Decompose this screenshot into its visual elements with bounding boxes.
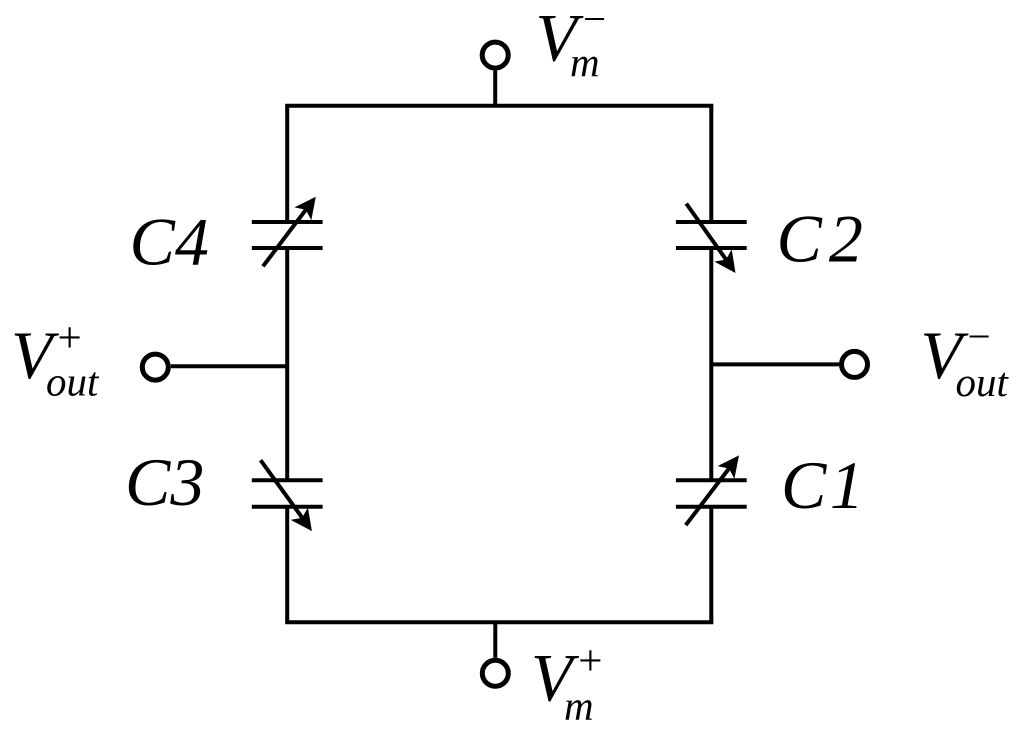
svg-text:+: + [576, 638, 605, 685]
capacitor C4 (variable, top left) [252, 197, 323, 267]
svg-text:+: + [55, 315, 84, 362]
svg-text:C1: C1 [781, 447, 867, 523]
svg-text:−: − [965, 313, 993, 359]
capacitor C2 (variable, top right) [676, 204, 747, 273]
terminal node Vout- (right) [842, 351, 868, 377]
wire: left branch lower segment (C3 to bottom bus) [285, 507, 289, 622]
wire: right branch lower segment (C1 to bottom bus) [709, 507, 713, 622]
wire: left branch upper segment (top bus to C4) [285, 106, 289, 222]
capacitor C1 (variable, bottom right) [676, 455, 747, 525]
wire: Vm+ terminal stub [493, 622, 497, 658]
svg-text:out: out [956, 359, 1010, 405]
wire: Vm- terminal stub [493, 71, 497, 106]
svg-text:C4: C4 [130, 203, 209, 279]
svg-text:m: m [570, 39, 600, 85]
label Vm+ [531, 638, 605, 729]
svg-text:C2: C2 [777, 200, 870, 276]
terminal node Vm- (top) [482, 42, 508, 68]
svg-text:out: out [46, 359, 100, 405]
svg-text:−: − [581, 0, 609, 42]
label Vout- [921, 313, 1010, 405]
wire: top bus (Vm- net) [285, 104, 713, 108]
svg-text:m: m [564, 683, 594, 729]
wire: right branch upper segment (top bus to C2) [709, 106, 713, 222]
wire: left branch middle segment (C4 to C3, Vout+ node) [285, 248, 289, 480]
wire: right branch middle segment (C2 to C1, Vout- node) [709, 248, 713, 480]
svg-text:C3: C3 [125, 444, 204, 520]
wire: Vout- terminal stub [711, 362, 839, 366]
capacitor C3 (variable, bottom left) [252, 460, 323, 531]
terminal node Vm+ (bottom) [482, 660, 508, 686]
label Vout+ [11, 315, 100, 405]
wire: bottom bus (Vm+ net) [285, 620, 713, 624]
wire: Vout+ terminal stub [171, 364, 287, 368]
terminal node Vout+ (left) [142, 354, 168, 380]
label Vm- [536, 0, 609, 85]
